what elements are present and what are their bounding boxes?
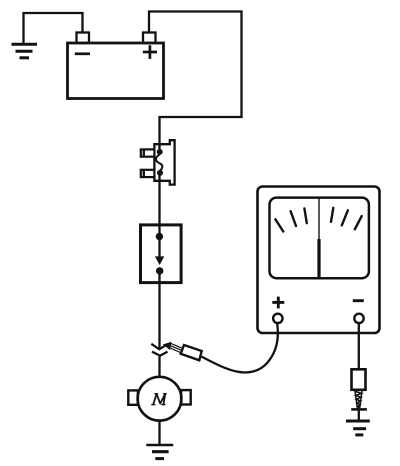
motor M1 right mount tab bbox=[181, 390, 191, 404]
junction dot CB1 input bbox=[157, 149, 163, 155]
motor M1 body bbox=[138, 377, 182, 421]
motor M1 left mount tab bbox=[128, 390, 138, 404]
test probe P1 tip arrow bbox=[163, 342, 172, 350]
flasher unit case bbox=[141, 225, 182, 283]
battery B1 negative post bbox=[77, 33, 90, 44]
wire flasher to open connector bbox=[158, 273, 160, 348]
meter needle bbox=[318, 199, 320, 278]
circuit breaker terminal lug upper bbox=[141, 149, 155, 157]
junction dot flasher input bbox=[156, 233, 163, 240]
meter scale ticks left bbox=[275, 208, 306, 231]
meter negative terminal bbox=[354, 314, 363, 323]
ground GND1 (battery negative ground) bbox=[12, 44, 38, 58]
meter scale ticks right bbox=[331, 208, 362, 230]
battery plus label bbox=[143, 45, 157, 59]
wire motor to ground GND2 bbox=[158, 421, 160, 445]
test probe P1 body bbox=[181, 345, 202, 360]
wire meter negative terminal to probe P2 bbox=[358, 323, 360, 369]
battery minus label bbox=[75, 52, 90, 55]
test probe P1 crimp hatching bbox=[170, 343, 183, 353]
test lead probe P1 to meter positive terminal bbox=[202, 324, 278, 372]
wire circuit breaker to flasher unit bbox=[158, 175, 160, 236]
junction dot CB1 output bbox=[157, 170, 163, 176]
circuit breaker terminal lug lower bbox=[141, 169, 155, 177]
junction dot flasher output bbox=[156, 267, 163, 274]
test probe P2 body bbox=[352, 369, 366, 390]
circuit breaker CB1 holder bracket bbox=[154, 140, 174, 184]
open connector break (disconnected terminals) bbox=[151, 344, 167, 356]
meter V1 dial window bbox=[270, 198, 369, 279]
meter V1 case bbox=[258, 187, 380, 334]
ground GND2 (motor ground) bbox=[146, 445, 173, 459]
wire battery negative post to ground GND1 bbox=[24, 13, 83, 44]
ground GND3 (meter negative ground) bbox=[346, 421, 370, 435]
flasher arrow (current direction) bbox=[155, 238, 164, 265]
test probe P2 tip (hatched taper) bbox=[355, 390, 362, 408]
wire probe P2 to ground GND3 bbox=[358, 409, 360, 420]
battery B1 positive post bbox=[143, 33, 156, 44]
meter positive terminal bbox=[273, 314, 282, 323]
wire battery positive to circuit breaker (top route) bbox=[149, 12, 242, 150]
wire connector to motor M1 bbox=[158, 357, 160, 378]
probe P2 contact bar bbox=[351, 408, 367, 411]
meter minus label bbox=[353, 299, 364, 302]
battery B1 case bbox=[68, 43, 164, 99]
meter plus label bbox=[272, 297, 284, 309]
circuit breaker element (S-curve) bbox=[156, 155, 162, 171]
motor M1 label M bbox=[152, 394, 166, 405]
